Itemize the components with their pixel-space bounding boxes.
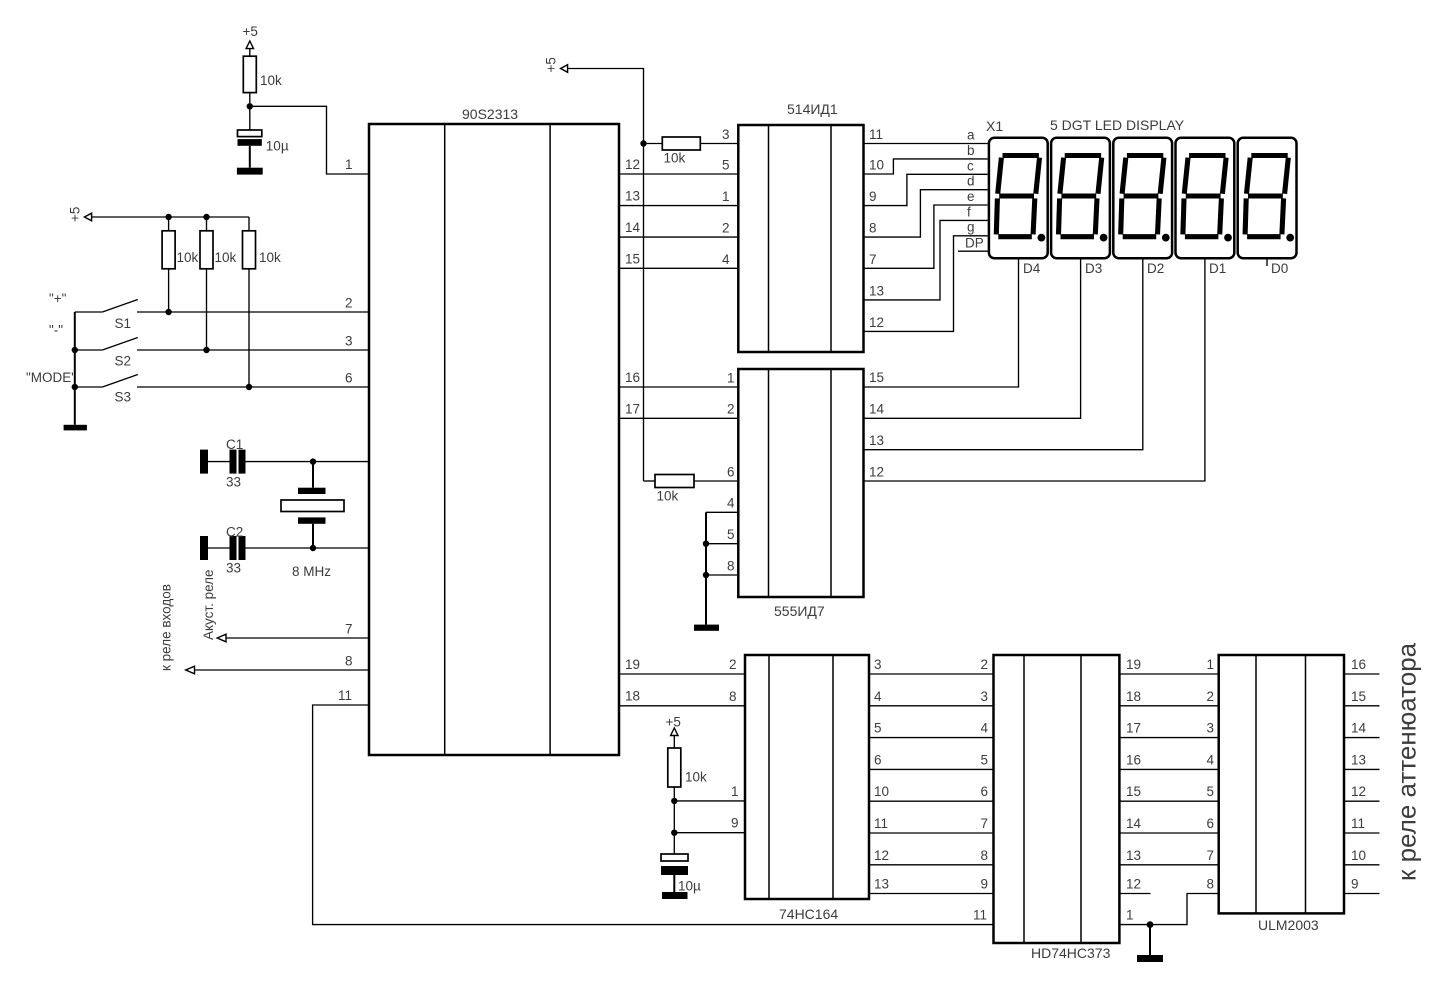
svg-text:ULM2003: ULM2003 — [1258, 917, 1319, 933]
svg-text:8: 8 — [1207, 877, 1215, 892]
svg-text:10k: 10k — [177, 250, 199, 265]
svg-text:1: 1 — [731, 784, 739, 799]
svg-text:g: g — [967, 220, 975, 235]
decoder U3 555ID7 — [738, 369, 863, 619]
capacitor 10u polarized bottom — [661, 854, 701, 894]
svg-text:f: f — [967, 204, 971, 219]
svg-text:3: 3 — [722, 127, 730, 142]
svg-text:a: a — [967, 128, 975, 143]
pin 8 wire k rele vhodov output — [186, 654, 369, 674]
switch S3 — [75, 375, 369, 405]
capacitor 10u polarized top-left — [238, 130, 289, 168]
514ID1 left pin labels 3 5 1 2 4 — [722, 127, 730, 267]
svg-text:9: 9 — [981, 877, 989, 892]
wire 74HC164 pin13 to HD373 pin9 — [869, 877, 994, 894]
svg-text:13: 13 — [625, 189, 640, 204]
svg-text:18: 18 — [625, 689, 640, 704]
wire 74HC164 pin5 to HD373 pin4 — [869, 721, 994, 738]
node HD373 pin1 ground junction — [1147, 921, 1154, 928]
node bus-S3 — [72, 384, 78, 390]
svg-text:2: 2 — [1207, 689, 1215, 704]
svg-text:"-": "-" — [49, 323, 63, 338]
514ID1 right pin 7 wire to segment e — [864, 205, 988, 268]
svg-text:14: 14 — [1126, 816, 1142, 831]
svg-text:10k: 10k — [259, 250, 281, 265]
ground below 10u — [237, 168, 263, 175]
driver U6 ULM2003 — [1219, 655, 1344, 933]
node S3-R junction — [246, 384, 252, 390]
svg-text:к реле входов: к реле входов — [159, 584, 174, 671]
resistor 10k pull-up S2 — [200, 217, 237, 350]
node junction R/C top-left — [247, 103, 253, 109]
switch S1 — [75, 300, 369, 332]
svg-text:8: 8 — [345, 654, 353, 669]
svg-text:S1: S1 — [115, 316, 132, 331]
svg-text:d: d — [967, 174, 975, 189]
svg-text:3: 3 — [1207, 721, 1215, 736]
555ID7 right pin 14 wire to digit D3 — [864, 259, 1081, 418]
svg-text:C2: C2 — [226, 525, 243, 540]
svg-text:6: 6 — [874, 752, 882, 767]
svg-text:14: 14 — [1351, 721, 1367, 736]
crystal 8 MHz — [281, 462, 344, 579]
wire 74HC164 pin11 to HD373 pin7 — [869, 816, 994, 833]
latch U5 HD74HC373 — [994, 655, 1120, 961]
svg-text:5: 5 — [727, 527, 735, 542]
svg-text:15: 15 — [869, 370, 884, 385]
svg-text:2: 2 — [722, 221, 730, 236]
wire resistor to junction and capacitor — [249, 93, 251, 130]
svg-text:15: 15 — [625, 252, 640, 267]
node bus-S2 — [72, 347, 78, 353]
svg-text:10: 10 — [874, 784, 889, 799]
svg-text:555ИД7: 555ИД7 — [774, 603, 825, 619]
pin 11 bus wire to HD74HC373 pin 11 — [313, 688, 994, 925]
svg-text:7: 7 — [869, 252, 877, 267]
svg-text:16: 16 — [1126, 752, 1141, 767]
ground bus left of switches — [74, 312, 76, 425]
svg-text:12: 12 — [869, 465, 884, 480]
wire 74HC164 pin4 to HD373 pin3 — [869, 689, 994, 706]
shift register U4 74HC164 — [745, 655, 869, 922]
node C1-crystal junction — [310, 458, 316, 464]
svg-text:7: 7 — [1207, 848, 1215, 863]
svg-text:10k: 10k — [664, 151, 686, 166]
svg-text:16: 16 — [625, 370, 640, 385]
514ID1 right pin 13 wire to segment f — [864, 220, 988, 300]
svg-text:5: 5 — [981, 752, 989, 767]
wire +5 vertical rail — [568, 69, 644, 482]
svg-text:10: 10 — [869, 158, 884, 173]
segment labels a-g DP — [965, 128, 984, 251]
svg-text:1: 1 — [727, 371, 735, 386]
svg-text:2: 2 — [981, 657, 989, 672]
svg-text:2: 2 — [345, 296, 353, 311]
svg-text:33: 33 — [226, 475, 241, 490]
svg-text:C1: C1 — [226, 437, 243, 452]
svg-text:b: b — [967, 143, 975, 158]
resistor 10k pullup top-left — [243, 56, 282, 92]
wire MCU pin15 to 514ID1 pin4 — [619, 267, 738, 269]
resistor 10k pullup 74HC164 — [668, 748, 707, 854]
wire HD373 pin13 to ULM2003 pin7 — [1119, 848, 1218, 865]
svg-text:4: 4 — [1207, 752, 1215, 767]
svg-text:S2: S2 — [115, 354, 132, 369]
resistor 10k to 555ID7 pin 6 — [644, 475, 739, 504]
resistor 10k to 514ID1 pin 3 — [644, 137, 739, 166]
svg-text:5: 5 — [1207, 784, 1215, 799]
svg-text:6: 6 — [1207, 816, 1215, 831]
svg-text:3: 3 — [981, 689, 989, 704]
display digit D0 — [1238, 138, 1297, 258]
node tie pin5 — [703, 541, 709, 547]
wire HD373 pin19 to ULM2003 pin1 — [1119, 657, 1218, 674]
ULM2003 right pin 10 stub — [1344, 848, 1380, 865]
power +5 symbol top-left — [243, 24, 258, 56]
wire to 74HC164 pin 1 — [674, 784, 745, 801]
wire MCU pin12 to 514ID1 pin5 — [619, 173, 738, 175]
ground below 555ID7 — [694, 625, 719, 631]
display X1 5 DGT LED DISPLAY — [986, 117, 1185, 134]
resistor 10k pull-up S3 — [243, 217, 282, 387]
514ID1 right pin 11 wire to segment a — [864, 127, 988, 144]
svg-text:1: 1 — [1207, 657, 1215, 672]
svg-text:X1: X1 — [986, 118, 1003, 134]
svg-text:7: 7 — [345, 622, 353, 637]
svg-text:5: 5 — [722, 158, 730, 173]
svg-text:13: 13 — [874, 877, 889, 892]
svg-text:4: 4 — [722, 252, 730, 267]
svg-text:10k: 10k — [215, 250, 237, 265]
svg-text:6: 6 — [981, 784, 989, 799]
capacitor C2 33 — [200, 525, 369, 576]
node +5 branch junction — [640, 140, 646, 146]
wire 74HC164 pin6 to HD373 pin5 — [869, 752, 994, 769]
svg-text:14: 14 — [869, 402, 885, 417]
svg-text:18: 18 — [1126, 689, 1141, 704]
decoder U2 514ID1 — [738, 101, 863, 352]
digit select labels D4-D0 — [1023, 261, 1288, 276]
wire MCU pin16 to 555ID7 pin1 — [619, 386, 738, 388]
svg-text:e: e — [967, 189, 975, 204]
ULM2003 right pin 15 stub — [1344, 689, 1380, 706]
ground below 10u bottom — [662, 892, 688, 899]
wire 74HC164 pin12 to HD373 pin8 — [869, 848, 994, 865]
svg-text:к реле аттенюатора: к реле аттенюатора — [1392, 642, 1422, 881]
svg-text:2: 2 — [727, 402, 735, 417]
svg-text:33: 33 — [226, 561, 241, 576]
svg-text:8: 8 — [729, 689, 737, 704]
svg-text:11: 11 — [338, 688, 352, 703]
MCU U1 90S2313 — [369, 106, 619, 755]
wire D0 stub — [1266, 259, 1268, 266]
svg-text:15: 15 — [1351, 689, 1366, 704]
svg-text:3: 3 — [874, 657, 882, 672]
svg-text:3: 3 — [345, 334, 353, 349]
svg-text:"MODE": "MODE" — [26, 370, 76, 385]
svg-text:7: 7 — [981, 816, 989, 831]
svg-text:HD74HC373: HD74HC373 — [1031, 945, 1111, 961]
svg-text:5: 5 — [874, 721, 882, 736]
svg-text:+5: +5 — [666, 715, 681, 730]
ULM2003 right pin 9 stub — [1344, 877, 1380, 894]
555ID7 left pin labels 1 2 6 — [727, 371, 735, 480]
wire MCU pin18 to 74HC164 pin8 — [619, 705, 745, 707]
555ID7 pins 4 5 8 tie to ground — [706, 496, 738, 625]
svg-text:1: 1 — [345, 157, 353, 172]
svg-text:8: 8 — [869, 221, 877, 236]
svg-text:12: 12 — [1126, 877, 1141, 892]
555ID7 right pin 15 wire to digit D4 — [864, 259, 1019, 387]
node rail junction 1 — [165, 214, 171, 220]
svg-text:D4: D4 — [1023, 261, 1041, 276]
wire MCU pin13 to 514ID1 pin1 — [619, 205, 738, 207]
svg-text:74HC164: 74HC164 — [779, 906, 838, 922]
svg-text:11: 11 — [869, 127, 883, 142]
svg-text:14: 14 — [625, 220, 641, 235]
74HC164 left pin labels 2 8 — [729, 657, 737, 704]
svg-text:S3: S3 — [115, 390, 132, 405]
svg-text:13: 13 — [1126, 848, 1141, 863]
wire HD373 pin14 to ULM2003 pin6 — [1119, 816, 1218, 833]
pin 7 wire Akust rele output — [217, 622, 369, 642]
svg-text:Акуст. реле: Акуст. реле — [201, 569, 216, 640]
ground below HD373 pin1 — [1137, 925, 1163, 962]
svg-text:10µ: 10µ — [678, 879, 701, 894]
wire HD373 pin17 to ULM2003 pin3 — [1119, 721, 1218, 738]
wire HD373 pin12 stub — [1119, 877, 1150, 894]
wire DP stub — [958, 250, 988, 252]
svg-text:13: 13 — [869, 284, 884, 299]
svg-text:514ИД1: 514ИД1 — [787, 101, 838, 117]
ground symbol below switches — [64, 425, 87, 431]
resistor 10k pull-up S1 — [162, 217, 198, 312]
display digit D2 — [1113, 138, 1172, 258]
wire junction to MCU pin 1 — [250, 106, 369, 174]
svg-text:12: 12 — [869, 315, 884, 330]
svg-text:10µ: 10µ — [266, 139, 289, 154]
555ID7 right pin 12 wire to digit D1 — [864, 259, 1205, 481]
svg-text:9: 9 — [1351, 877, 1359, 892]
svg-text:+5: +5 — [243, 24, 258, 39]
svg-text:D0: D0 — [1271, 261, 1288, 276]
svg-text:90S2313: 90S2313 — [462, 106, 518, 122]
514ID1 right pin 8 wire to segment d — [864, 190, 988, 237]
power +5 rail for switches — [68, 207, 250, 222]
node S2-R junction — [203, 347, 209, 353]
svg-text:12: 12 — [1351, 784, 1366, 799]
svg-text:DP: DP — [965, 236, 984, 251]
wire HD373 pin16 to ULM2003 pin4 — [1119, 752, 1218, 769]
svg-text:c: c — [967, 158, 974, 173]
node pullup-pin1 — [671, 798, 677, 804]
wire MCU pin14 to 514ID1 pin2 — [619, 236, 738, 238]
svg-text:13: 13 — [869, 433, 884, 448]
svg-text:10k: 10k — [260, 73, 282, 88]
svg-text:19: 19 — [1126, 657, 1141, 672]
capacitor C1 33 — [200, 437, 369, 490]
svg-text:+5: +5 — [68, 207, 83, 222]
svg-text:5 DGT LED DISPLAY: 5 DGT LED DISPLAY — [1050, 117, 1185, 133]
node pullup-pin9 — [671, 830, 677, 836]
svg-text:10k: 10k — [685, 770, 707, 785]
svg-text:12: 12 — [874, 848, 889, 863]
svg-text:11: 11 — [874, 816, 888, 831]
svg-text:4: 4 — [981, 721, 989, 736]
wire 74HC164 pin10 to HD373 pin6 — [869, 784, 994, 801]
power +5 symbol for 74HC164 — [666, 715, 681, 749]
wire HD373 pin18 to ULM2003 pin2 — [1119, 689, 1218, 706]
ULM2003 right pin 13 stub — [1344, 752, 1380, 769]
svg-text:4: 4 — [727, 496, 735, 511]
node rail junction 2 — [203, 214, 209, 220]
node tie pin8 — [703, 572, 709, 578]
svg-text:12: 12 — [625, 157, 640, 172]
svg-text:D1: D1 — [1209, 261, 1226, 276]
svg-text:"+": "+" — [49, 291, 67, 306]
ULM2003 right pin 12 stub — [1344, 784, 1380, 801]
ULM2003 right pin 14 stub — [1344, 721, 1380, 738]
svg-text:11: 11 — [1351, 816, 1365, 831]
ULM2003 right pin 16 stub — [1344, 657, 1380, 674]
power +5 symbol top-middle — [544, 57, 568, 72]
svg-text:9: 9 — [869, 189, 877, 204]
wire MCU pin19 to 74HC164 pin2 — [619, 673, 745, 675]
svg-text:9: 9 — [731, 816, 739, 831]
wire HD373 pin1 to ground and ULM2003 pin8 — [1119, 877, 1218, 925]
svg-text:D3: D3 — [1085, 261, 1102, 276]
svg-text:13: 13 — [1351, 752, 1366, 767]
svg-text:4: 4 — [874, 689, 882, 704]
svg-text:15: 15 — [1126, 784, 1141, 799]
svg-text:8: 8 — [981, 848, 989, 863]
svg-text:10k: 10k — [657, 489, 679, 504]
svg-text:6: 6 — [345, 371, 353, 386]
svg-text:8: 8 — [727, 559, 735, 574]
svg-text:2: 2 — [729, 657, 737, 672]
514ID1 right pin 10 wire to segment b — [864, 158, 988, 175]
svg-text:D2: D2 — [1147, 261, 1164, 276]
switch S2 — [75, 338, 369, 369]
wire to 74HC164 pin 9 — [674, 816, 745, 833]
svg-text:19: 19 — [625, 657, 640, 672]
svg-text:17: 17 — [625, 402, 640, 417]
display digit D3 — [1051, 138, 1110, 258]
svg-text:1: 1 — [1126, 908, 1134, 923]
514ID1 right pin 9 wire to segment c — [864, 174, 988, 205]
555ID7 right pin 13 wire to digit D2 — [864, 259, 1143, 450]
svg-text:16: 16 — [1351, 657, 1366, 672]
svg-text:8 MHz: 8 MHz — [292, 564, 331, 579]
wire HD373 pin15 to ULM2003 pin5 — [1119, 784, 1218, 801]
wire MCU pin17 to 555ID7 pin2 — [619, 417, 738, 419]
514ID1 right pin 12 wire to segment g — [864, 236, 988, 332]
display digit D1 — [1176, 138, 1235, 258]
svg-text:17: 17 — [1126, 721, 1141, 736]
svg-text:+5: +5 — [544, 57, 559, 72]
wire 74HC164 pin3 to HD373 pin2 — [869, 657, 994, 674]
svg-text:1: 1 — [722, 189, 730, 204]
svg-text:10: 10 — [1351, 848, 1366, 863]
ULM2003 right pin 11 stub — [1344, 816, 1380, 833]
node S1-R junction — [165, 309, 171, 315]
svg-text:6: 6 — [727, 465, 735, 480]
svg-text:11: 11 — [973, 908, 987, 923]
display digit D4 — [989, 138, 1048, 258]
node C2-crystal junction — [310, 545, 316, 551]
